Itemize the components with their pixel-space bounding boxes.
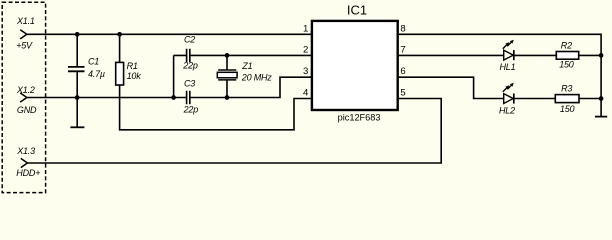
svg-text:20 MHz: 20 MHz xyxy=(241,73,273,83)
svg-text:HL1: HL1 xyxy=(500,62,516,72)
capacitor C2 xyxy=(187,49,190,62)
connector X1 dashed outline xyxy=(2,2,45,192)
svg-text:22p: 22p xyxy=(182,61,198,71)
svg-text:C1: C1 xyxy=(88,56,99,66)
junction crystal bottom / GND-pin3 net xyxy=(225,95,230,100)
svg-text:2: 2 xyxy=(303,44,308,55)
wire +5V rail (X1.1 to pin 1) xyxy=(27,33,312,35)
svg-text:7: 7 xyxy=(400,44,405,55)
wire pin 6 to LED HL2 xyxy=(398,77,504,98)
svg-text:150: 150 xyxy=(560,104,575,114)
svg-text:GND: GND xyxy=(17,105,37,115)
svg-text:6: 6 xyxy=(400,66,405,77)
wire C3/crystal bottom to pin 3 xyxy=(190,77,312,97)
wire C2 ground riser xyxy=(173,55,175,97)
terminal X1.3 xyxy=(21,158,28,167)
junction crystal top / pin 2 net xyxy=(225,53,230,58)
svg-text:IC1: IC1 xyxy=(347,3,367,18)
svg-text:4: 4 xyxy=(303,87,309,98)
svg-text:X1.2: X1.2 xyxy=(16,85,35,95)
svg-text:1: 1 xyxy=(303,23,308,34)
wire pin 8 to right ground rail xyxy=(398,34,601,116)
junction GND / C2 riser xyxy=(171,95,176,100)
svg-text:R3: R3 xyxy=(561,83,572,93)
junction right rail / R2 xyxy=(599,53,604,58)
svg-text:C3: C3 xyxy=(184,78,195,88)
svg-text:8: 8 xyxy=(400,23,405,34)
svg-text:R1: R1 xyxy=(127,61,138,71)
IC IC1 (pic12F683) body xyxy=(312,21,398,110)
svg-text:Z1: Z1 xyxy=(241,61,252,71)
junction right rail / R3 / ground xyxy=(599,96,604,101)
LED HL1 xyxy=(503,40,514,61)
svg-text:5: 5 xyxy=(400,87,405,98)
svg-text:22p: 22p xyxy=(183,105,199,115)
wire R1 bottom to pin 4 xyxy=(120,98,312,130)
svg-text:10k: 10k xyxy=(127,71,142,81)
wire GND rail (X1.2 to C3 left plate) xyxy=(27,97,186,99)
terminal X1.1 xyxy=(20,30,27,39)
junction GND / C1 / ground xyxy=(75,95,80,100)
resistor R1 xyxy=(116,34,124,97)
svg-text:X1.3: X1.3 xyxy=(16,146,35,156)
wire C2/crystal top to pin 2 xyxy=(174,54,312,56)
svg-text:+5V: +5V xyxy=(16,40,33,50)
wire LED HL2 to R3 xyxy=(514,98,556,100)
terminal X1.2 xyxy=(20,93,27,102)
junction +5V / C1 xyxy=(75,32,80,37)
wire pin 5 to X1.3 (HDD+) xyxy=(27,99,441,164)
ground symbol left (under C1) xyxy=(70,98,84,128)
ground symbol right (below R3 junction) xyxy=(595,116,607,118)
svg-text:150: 150 xyxy=(559,60,574,70)
svg-text:C2: C2 xyxy=(184,34,195,44)
capacitor C3 xyxy=(187,91,190,104)
svg-text:4.7µ: 4.7µ xyxy=(88,69,105,79)
wire LED HL1 to R2 xyxy=(514,54,557,56)
svg-text:HL2: HL2 xyxy=(499,106,515,116)
resistor R3 xyxy=(555,95,579,103)
svg-text:X1.1: X1.1 xyxy=(16,16,35,26)
svg-text:3: 3 xyxy=(303,66,308,77)
svg-text:R2: R2 xyxy=(561,41,572,51)
resistor R2 xyxy=(556,52,578,60)
wire R2 to right rail xyxy=(579,54,601,56)
wire R3 to right rail xyxy=(579,98,601,100)
junction +5V / R1 xyxy=(117,32,122,37)
wire pin 7 to LED HL1 xyxy=(398,54,504,56)
svg-text:HDD+: HDD+ xyxy=(16,168,40,178)
capacitor C1 xyxy=(68,34,85,97)
crystal Z1 xyxy=(217,55,237,97)
svg-text:pic12F683: pic12F683 xyxy=(338,112,381,122)
LED HL2 xyxy=(503,83,514,104)
